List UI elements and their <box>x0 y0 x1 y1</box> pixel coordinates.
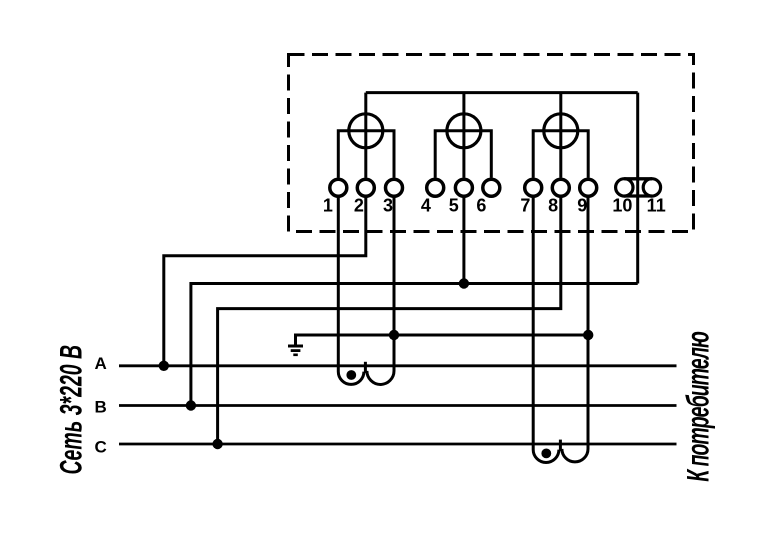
svg-text:C: C <box>94 438 106 457</box>
meter outline (dashed box) <box>289 55 694 232</box>
polarity dot TA1 <box>346 370 356 380</box>
svg-text:11: 11 <box>647 196 666 216</box>
terminal 8 <box>552 179 569 196</box>
svg-text:6: 6 <box>476 196 486 216</box>
ground symbol <box>288 346 303 355</box>
phase line B <box>119 404 677 407</box>
svg-text:3: 3 <box>383 196 393 216</box>
svg-text:A: A <box>94 354 106 373</box>
voltage coil B (U2 phase B circle with cross) <box>435 93 491 178</box>
svg-text:2: 2 <box>354 196 364 216</box>
wire: terminal 5 down to phase B run <box>462 196 465 284</box>
ground wire (terminals 3 and 9 common) <box>296 335 589 346</box>
wire: phase B run from terminals 10/11 and 5 to phase B <box>191 284 638 406</box>
svg-text:1: 1 <box>323 196 333 216</box>
polarity dot TA2 <box>541 449 551 459</box>
terminal 1 <box>330 179 347 196</box>
svg-text:10: 10 <box>612 196 632 216</box>
svg-text:8: 8 <box>548 196 558 216</box>
svg-text:B: B <box>94 398 106 417</box>
terminal 5 <box>455 179 472 196</box>
terminal 11 <box>643 179 660 196</box>
terminal 7 <box>525 179 542 196</box>
terminal 6 <box>483 179 500 196</box>
junction dot terminal 9 on ground wire <box>583 330 593 340</box>
terminal 2 <box>357 179 374 196</box>
voltage coil C (U3 phase C circle with cross) <box>533 93 588 178</box>
junction dot phase A tap <box>159 361 169 371</box>
wire: terminal 8 to phase C tap <box>218 196 561 444</box>
svg-text:Сеть 3*220 В: Сеть 3*220 В <box>53 345 89 475</box>
junction dot phase B tap <box>186 400 196 410</box>
svg-text:5: 5 <box>449 196 459 216</box>
terminal 10 <box>616 179 633 196</box>
terminal 4 <box>427 179 444 196</box>
terminal number labels 1-11 <box>323 196 666 216</box>
junction dot terminal 3 on ground wire <box>389 330 399 340</box>
current transformer TA2 on phase C (wires from terminals 7,9 with loops) <box>533 196 588 462</box>
terminal 3 <box>386 179 403 196</box>
jumper link between terminals 10-11 (tangent bars) <box>624 179 652 196</box>
voltage coil A (U1 phase A circle with cross) <box>338 93 394 178</box>
svg-text:7: 7 <box>520 196 530 216</box>
wire: bus down through terminals 10/11 to phase B run <box>636 93 639 284</box>
svg-text:К потребителю: К потребителю <box>680 332 716 482</box>
wire: terminal 2 to phase A tap <box>164 196 366 366</box>
terminal 9 <box>580 179 597 196</box>
svg-text:9: 9 <box>577 196 587 216</box>
junction dot terminal 5 on phase B run <box>459 278 469 288</box>
phase line A <box>119 364 677 367</box>
top bus wire (terminals 2-5-8 common to 10/11) <box>366 91 638 94</box>
svg-text:4: 4 <box>421 196 431 216</box>
phase line C <box>119 443 677 446</box>
junction dot phase C tap <box>212 439 222 449</box>
current transformer TA1 on phase A (wires from terminals 1,3 with loops) <box>338 196 394 384</box>
